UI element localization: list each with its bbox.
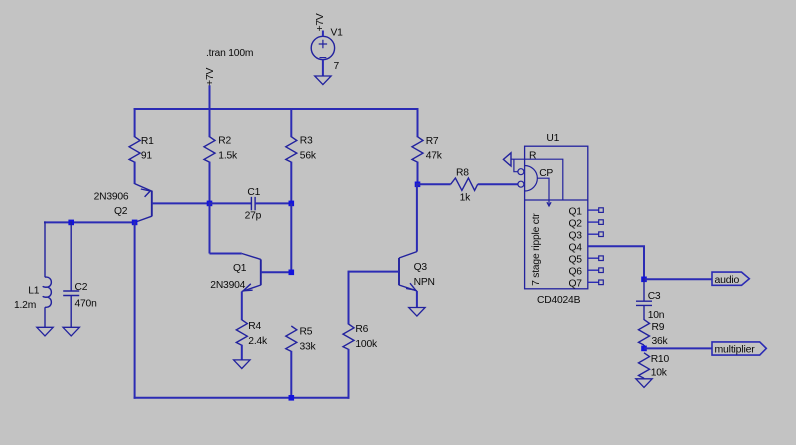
junction R3/C1 node bbox=[289, 201, 295, 207]
Q3 base lead bbox=[349, 271, 400, 273]
svg-text:L1: L1 bbox=[28, 285, 40, 296]
pin Q5 stub bbox=[588, 257, 599, 259]
resistor R2 bbox=[204, 137, 215, 162]
U1 bubble R bbox=[518, 169, 524, 175]
svg-text:audio: audio bbox=[715, 274, 740, 286]
junction Q1 base node bbox=[289, 270, 295, 276]
svg-text:R5: R5 bbox=[300, 327, 313, 338]
pin Q6 terminal bbox=[599, 268, 604, 273]
wire to multiplier flag bbox=[644, 347, 712, 349]
U1 clock arrowhead bbox=[547, 202, 551, 206]
U1 body bbox=[525, 146, 588, 289]
svg-text:47k: 47k bbox=[426, 150, 443, 161]
Q3 emitter arrow bbox=[406, 283, 416, 290]
V1 plus mark bbox=[319, 40, 327, 48]
junction R5 bottom bbox=[289, 395, 295, 401]
svg-text:R1: R1 bbox=[141, 136, 154, 147]
resistor R1 bbox=[129, 137, 140, 162]
pin Q1 stub bbox=[588, 209, 599, 211]
transistor Q2 emitter lead bbox=[135, 184, 152, 192]
resistor R9 bbox=[639, 320, 650, 345]
Q1 emitter lead bbox=[242, 285, 261, 292]
wire R4 to ground bbox=[241, 345, 243, 361]
wire R7 drop from rail bbox=[417, 108, 419, 137]
svg-text:2N3904: 2N3904 bbox=[210, 280, 245, 291]
wire node to R8 bbox=[417, 183, 451, 185]
junction R7 node bbox=[415, 182, 421, 188]
svg-text:36k: 36k bbox=[652, 336, 669, 347]
svg-text:R6: R6 bbox=[355, 324, 368, 335]
U1 R branch to bubble bbox=[514, 159, 518, 172]
pin Q3 terminal bbox=[599, 232, 604, 237]
wire R3 drop from rail bbox=[290, 108, 292, 137]
svg-text:Q7: Q7 bbox=[568, 279, 582, 290]
U1 divider bbox=[525, 199, 588, 201]
pin Q7 stub bbox=[588, 281, 599, 283]
svg-text:R10: R10 bbox=[651, 354, 670, 365]
wire node down to Q1 base node bbox=[290, 203, 292, 273]
wire R5 to bottom rail bbox=[290, 351, 292, 399]
wire collector node to C2/L1 bbox=[44, 221, 136, 223]
resistor R5 bbox=[286, 326, 297, 351]
ground Q3 bbox=[409, 308, 425, 317]
svg-text:R9: R9 bbox=[652, 322, 665, 333]
U1 R net line bbox=[511, 159, 563, 200]
port flag multiplier bbox=[712, 342, 766, 355]
svg-text:R7: R7 bbox=[426, 136, 439, 147]
ground R4 bbox=[234, 360, 250, 369]
svg-text:7: 7 bbox=[334, 61, 340, 72]
wire to audio flag bbox=[644, 278, 712, 280]
capacitor C1 bbox=[251, 197, 255, 210]
U1 clock line bbox=[537, 178, 549, 206]
svg-text:27p: 27p bbox=[245, 211, 262, 222]
svg-text:Q5: Q5 bbox=[568, 254, 582, 265]
resistor R6 bbox=[343, 324, 354, 349]
wire V1 to ground bbox=[322, 60, 324, 77]
capacitor C3 bbox=[636, 278, 652, 320]
wire bottom rail bbox=[134, 397, 350, 399]
voltage source V1 circle bbox=[311, 36, 334, 59]
resistor R3 bbox=[286, 137, 297, 162]
pin Q3 stub bbox=[588, 233, 599, 235]
svg-text:Q3: Q3 bbox=[414, 262, 428, 273]
svg-text:470n: 470n bbox=[75, 298, 98, 309]
svg-text:56k: 56k bbox=[300, 150, 317, 161]
inductor L1 bbox=[43, 221, 51, 327]
pin Q2 stub bbox=[588, 221, 599, 223]
svg-text:Q6: Q6 bbox=[568, 266, 582, 277]
pin Q2 terminal bbox=[599, 220, 604, 225]
V1 minus mark bbox=[320, 57, 327, 59]
svg-text:.tran 100m: .tran 100m bbox=[206, 48, 253, 59]
resistor R4 bbox=[236, 320, 247, 345]
Q3 emitter lead bbox=[399, 285, 417, 291]
wire R1 to Q2 emitter bbox=[134, 162, 136, 184]
svg-text:multiplier: multiplier bbox=[715, 344, 756, 356]
svg-text:C3: C3 bbox=[648, 291, 661, 302]
svg-text:10n: 10n bbox=[648, 310, 665, 321]
U1 reset marker triangle bbox=[503, 153, 511, 166]
svg-text:91: 91 bbox=[141, 150, 153, 161]
svg-text:V1: V1 bbox=[331, 28, 344, 39]
wire Q3 base to R6 bbox=[348, 271, 350, 325]
Q1 base lead bbox=[261, 271, 292, 273]
resistor R7 bbox=[412, 137, 423, 162]
pin Q5 terminal bbox=[599, 256, 604, 261]
svg-text:7 stage ripple ctr: 7 stage ripple ctr bbox=[531, 213, 542, 286]
svg-text:2N3906: 2N3906 bbox=[94, 192, 129, 203]
wire V1 top stub bbox=[322, 31, 324, 37]
wire base node down bbox=[209, 202, 211, 253]
capacitor C2 bbox=[63, 221, 79, 327]
svg-text:R3: R3 bbox=[300, 136, 313, 147]
junction audio node bbox=[641, 277, 647, 283]
svg-text:100k: 100k bbox=[355, 339, 378, 350]
svg-text:2.4k: 2.4k bbox=[248, 336, 268, 347]
wire top supply rail bbox=[134, 108, 419, 110]
svg-text:+7V: +7V bbox=[315, 13, 326, 31]
svg-text:CP: CP bbox=[539, 168, 553, 179]
pin Q1 terminal bbox=[599, 208, 604, 213]
wire base node to C1 bbox=[209, 202, 252, 204]
svg-text:Q2: Q2 bbox=[568, 218, 582, 229]
svg-text:R: R bbox=[529, 150, 536, 161]
wire R7 node to Q3 collector bbox=[416, 183, 418, 251]
wire R2 drop from rail bbox=[209, 108, 211, 137]
wire Q4 output bbox=[588, 246, 644, 279]
wire R7 to node bbox=[417, 162, 419, 186]
junction C2 top bbox=[68, 220, 74, 226]
wire R6 to bottom rail bbox=[348, 349, 350, 399]
svg-text:U1: U1 bbox=[546, 133, 559, 144]
U1 gate arc bbox=[525, 166, 538, 192]
svg-text:R8: R8 bbox=[456, 167, 469, 178]
svg-text:Q2: Q2 bbox=[114, 206, 128, 217]
resistor R8 bbox=[451, 178, 478, 190]
port flag audio bbox=[712, 272, 749, 285]
svg-text:CD4024B: CD4024B bbox=[537, 295, 581, 306]
wire R3 to node bbox=[290, 162, 292, 205]
Q1 emitter arrow bbox=[243, 284, 252, 291]
svg-text:C2: C2 bbox=[75, 282, 88, 293]
wire R9 to multiplier node bbox=[643, 345, 645, 349]
svg-text:1.2m: 1.2m bbox=[14, 300, 36, 311]
wire to Q1 collector bbox=[210, 253, 242, 255]
svg-text:1k: 1k bbox=[460, 193, 472, 204]
wire R2 to base node bbox=[209, 162, 211, 205]
svg-text:Q3: Q3 bbox=[568, 230, 582, 241]
pin Q7 terminal bbox=[599, 280, 604, 285]
svg-text:R4: R4 bbox=[248, 321, 261, 332]
Q3 collector lead bbox=[399, 252, 417, 258]
wire Q3 emitter to ground bbox=[416, 291, 418, 308]
svg-text:NPN: NPN bbox=[414, 277, 435, 288]
wire +7V flag stub bbox=[209, 85, 211, 110]
Q2 emitter arrow bbox=[141, 189, 150, 197]
Q2 collector lead bbox=[135, 216, 152, 222]
Q2 base lead bbox=[152, 202, 210, 204]
Q1 base bar bbox=[260, 259, 262, 285]
wire R8 to CP input bbox=[478, 183, 518, 185]
Q2 base bar bbox=[151, 191, 153, 217]
ground C2 bbox=[63, 327, 79, 336]
wire C1 to R3 node bbox=[255, 202, 292, 204]
wire R1 drop from rail bbox=[134, 108, 136, 137]
svg-text:Q4: Q4 bbox=[568, 242, 582, 253]
U1 bubble CP bbox=[518, 181, 524, 187]
svg-text:1.5k: 1.5k bbox=[218, 150, 238, 161]
resistor R10 bbox=[639, 353, 650, 378]
svg-text:R2: R2 bbox=[218, 136, 231, 147]
pin Q6 stub bbox=[588, 269, 599, 271]
svg-text:Q1: Q1 bbox=[568, 206, 582, 217]
Q3 base bar bbox=[398, 258, 400, 285]
Q1 collector lead bbox=[242, 254, 261, 260]
wire Q1 emitter to R4 bbox=[241, 292, 243, 321]
svg-text:+7V: +7V bbox=[205, 67, 216, 85]
wire left vertical to bottom rail bbox=[134, 221, 136, 398]
ground V1 bbox=[315, 76, 331, 85]
svg-text:33k: 33k bbox=[300, 341, 317, 352]
junction base node bbox=[207, 201, 213, 207]
ground L1 bbox=[37, 327, 53, 336]
junction Q2 collector bbox=[132, 220, 138, 226]
ground R10 bbox=[636, 379, 652, 388]
svg-text:C1: C1 bbox=[247, 187, 260, 198]
svg-text:Q1: Q1 bbox=[233, 263, 247, 274]
wire R10 to ground bbox=[643, 378, 645, 379]
junction multiplier node bbox=[641, 346, 647, 352]
svg-text:10k: 10k bbox=[651, 368, 668, 379]
